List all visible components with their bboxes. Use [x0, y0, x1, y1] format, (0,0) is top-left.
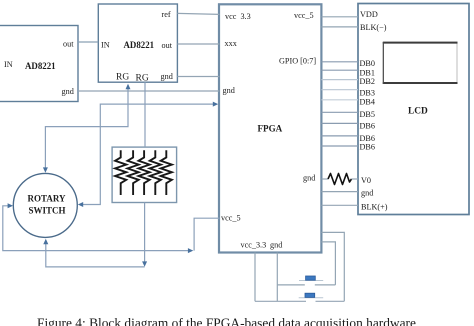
wire RG1 U2 to rotary switch top [45, 85, 128, 171]
svg-text:out: out [63, 40, 74, 49]
resistor network RN1 box [112, 147, 177, 202]
svg-text:FPGA: FPGA [258, 124, 283, 134]
svg-text:VDD: VDD [360, 10, 378, 19]
wire out U1 to IN U2 [78, 41, 98, 43]
resistor R2 (network) [128, 150, 139, 195]
svg-text:LCD: LCD [408, 107, 428, 117]
wire rotary bottom loop [46, 242, 145, 267]
arrow left into rotary right [78, 202, 83, 207]
wire rotary left loop [3, 206, 189, 251]
resistor R4 (network) [150, 150, 161, 195]
wire FPGA to LCD BLK(-) [321, 26, 358, 28]
wire gnd U2 to FPGA [177, 76, 219, 78]
wire corner up to FPGA vcc_5 [194, 218, 219, 250]
wire RG2 U2 to resistor network [144, 82, 146, 147]
svg-text:V0: V0 [361, 176, 371, 185]
wire bus DB2 [321, 79, 358, 81]
wire ref U2 to FPGA [177, 13, 219, 14]
svg-text:ref: ref [162, 10, 171, 19]
arrow right into rotary left [8, 203, 13, 208]
svg-text:DB3: DB3 [360, 89, 375, 98]
arrow down into rotary top [43, 167, 48, 172]
svg-text:gnd: gnd [161, 72, 173, 81]
push button S2 bar [299, 297, 324, 299]
arrow right at corner to vcc_5 [188, 248, 193, 253]
LCD module box [358, 4, 469, 215]
svg-text:AD8221: AD8221 [124, 40, 155, 50]
svg-text:out: out [162, 41, 173, 50]
svg-text:GPIO [0:7]: GPIO [0:7] [279, 57, 316, 66]
wire rotary right to FPGA [80, 104, 215, 204]
arrow up into RG1 [126, 84, 131, 89]
op-amp U1 AD8221 box [0, 26, 78, 102]
wire bus DB5 [321, 111, 358, 113]
wire bus DB6 second [321, 135, 358, 137]
svg-text:BLK(+): BLK(+) [361, 203, 388, 212]
wire FPGA to LCD gnd [321, 191, 358, 193]
wire bottom row right [316, 300, 345, 302]
svg-text:gnd: gnd [223, 86, 235, 95]
wire bus DB0 [321, 61, 358, 63]
wire gnd U1 to FPGA [78, 90, 220, 92]
resistor R3 (network) [139, 150, 150, 195]
wire FPGA to LCD BLK(+) [321, 204, 358, 206]
svg-text:vcc_5: vcc_5 [294, 11, 314, 20]
arrow up into rotary bottom [43, 239, 48, 244]
svg-text:IN: IN [4, 60, 13, 69]
wire resistor network down [144, 203, 146, 265]
push button S1 cap [306, 276, 316, 280]
svg-text:gnd: gnd [62, 87, 74, 96]
op-amp U2 AD8221 box [98, 4, 177, 82]
FPGA U3 box [219, 4, 321, 252]
wire FPGA right to button S1 inner [321, 242, 335, 285]
push button S2 cap [305, 293, 315, 297]
resistor RV zigzag [328, 174, 352, 185]
wire bus DB6 third [321, 145, 358, 147]
svg-text:DB5: DB5 [360, 110, 375, 119]
svg-text:AD8221: AD8221 [25, 61, 56, 71]
LCD display window rect [383, 42, 458, 84]
wire button S1 row right [315, 284, 336, 286]
svg-text:DB0: DB0 [360, 59, 375, 68]
svg-text:gnd: gnd [303, 174, 315, 183]
svg-text:vcc_3.3: vcc_3.3 [241, 241, 267, 250]
svg-text:xxx: xxx [225, 39, 237, 48]
wire out U2 to FPGA xxx [177, 43, 219, 45]
wire bus DB6 [321, 122, 358, 124]
wire FPGA vcc_5 to LCD VDD [321, 16, 358, 18]
arrow right into FPGA left [213, 102, 218, 107]
svg-text:RG: RG [116, 73, 129, 83]
wire bus DB3 [321, 89, 358, 91]
push button S1 bar [299, 280, 323, 282]
svg-text:DB2: DB2 [360, 77, 375, 86]
wire bus DB4 [321, 99, 358, 101]
wire FPGA bottom gnd down (B) [276, 253, 278, 302]
arrow down at network wire end [142, 261, 147, 266]
wire FPGA bottom vcc_3.3 down (A) [254, 253, 256, 302]
svg-text:SWITCH: SWITCH [29, 206, 66, 216]
svg-text:IN: IN [101, 41, 110, 50]
svg-text:vcc 3.3: vcc 3.3 [225, 12, 251, 21]
svg-text:DB6: DB6 [360, 143, 375, 152]
svg-text:gnd: gnd [270, 241, 282, 250]
resistor R5 (network) [161, 150, 172, 195]
wire FPGA right to button S2 outer [321, 232, 344, 301]
svg-text:BLK(−): BLK(−) [360, 23, 387, 32]
wire bottom row left [255, 300, 306, 302]
rotary switch SW1 circle [13, 173, 77, 237]
resistor R1 (network) [115, 150, 126, 195]
wire FPGA gnd to resistor RV [321, 178, 328, 180]
svg-text:ROTARY: ROTARY [28, 194, 67, 204]
svg-text:DB4: DB4 [360, 98, 375, 107]
svg-text:RG: RG [136, 74, 149, 84]
wire button S1 row [277, 284, 305, 286]
svg-text:DB6: DB6 [360, 122, 375, 131]
svg-text:Figure 4: Block diagram of the: Figure 4: Block diagram of the FPGA-base… [37, 316, 416, 326]
svg-text:gnd: gnd [361, 189, 373, 198]
svg-text:vcc_5: vcc_5 [221, 214, 241, 223]
wire bus DB1 [321, 69, 358, 71]
wire resistor RV to LCD V0 [352, 178, 359, 180]
